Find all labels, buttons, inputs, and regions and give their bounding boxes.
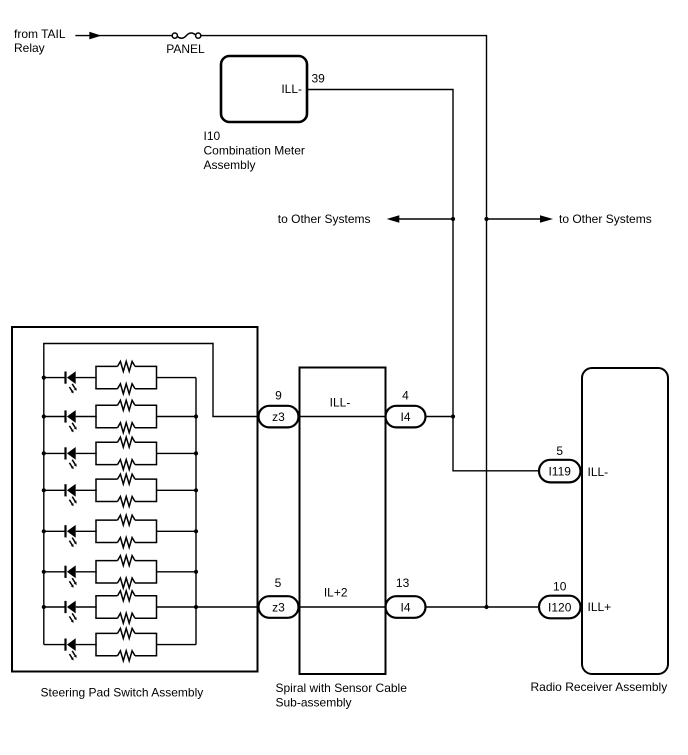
svg-text:ILL-: ILL-: [330, 395, 351, 409]
connector z3 pin 9: [259, 406, 299, 428]
svg-text:PANEL: PANEL: [166, 42, 205, 56]
svg-text:to Other Systems: to Other Systems: [559, 212, 652, 226]
wire LED to resistors row 3: [76, 452, 97, 454]
LED D6: [64, 565, 76, 587]
svg-text:5: 5: [275, 576, 282, 590]
junction on ILL+ net at to-Other-Systems: [484, 217, 488, 221]
wire left bus (LED cathode bus): [43, 344, 45, 645]
junction on ILL- net at to-Other-Systems: [451, 217, 455, 221]
wire resistors to bus row 1: [157, 377, 197, 379]
junction dot cathode bus row 2: [42, 414, 46, 418]
junction ILL+ net: [484, 605, 488, 609]
radio receiver assembly box: [582, 368, 668, 674]
resistor pair R2a / R2b: [95, 400, 157, 432]
LED D5: [64, 525, 76, 547]
svg-text:I4: I4: [400, 600, 410, 614]
svg-text:Sub-assembly: Sub-assembly: [276, 696, 352, 710]
svg-text:ILL+: ILL+: [588, 600, 612, 614]
wire resistors to bus row 6: [157, 571, 197, 573]
LED row 6: wire from cathode bus: [44, 571, 65, 573]
svg-text:z3: z3: [272, 410, 285, 424]
svg-text:10: 10: [553, 579, 567, 593]
svg-text:Spiral with Sensor Cable: Spiral with Sensor Cable: [276, 681, 408, 695]
wire resistors to bus row 7: [157, 606, 259, 608]
svg-text:9: 9: [275, 389, 282, 403]
svg-text:Steering Pad Switch Assembly: Steering Pad Switch Assembly: [41, 685, 204, 699]
svg-text:Combination Meter: Combination Meter: [204, 143, 305, 157]
svg-text:I119: I119: [548, 464, 571, 478]
LED D8: [64, 638, 76, 660]
resistor pair R3a / R3b: [95, 437, 157, 469]
LED D2: [64, 410, 76, 432]
wire meter pin 39 (ILL- net): [307, 90, 539, 471]
wire to Other Systems (left branch): [278, 212, 453, 226]
junction dot resistor bus row 2: [194, 414, 198, 418]
resistor pair R6a / R6b: [95, 556, 157, 588]
svg-text:from TAIL: from TAIL: [14, 27, 66, 41]
LED row 8: wire from cathode bus: [44, 644, 65, 646]
wire top of cathode bus: [43, 343, 213, 345]
wire to Other Systems (right branch): [487, 212, 652, 226]
resistor pair R4a / R4b: [95, 474, 157, 506]
LED D7: [64, 601, 76, 623]
svg-text:Assembly: Assembly: [204, 158, 256, 172]
svg-text:5: 5: [556, 444, 563, 458]
connector I4 pin 13: [386, 596, 426, 618]
wire ILL- inside spiral box: [299, 416, 386, 418]
junction dot cathode bus row 1: [42, 376, 46, 380]
junction dot cathode bus row 7: [42, 605, 46, 609]
junction dot cathode bus row 5: [42, 529, 46, 533]
wire resistors to bus row 2: [157, 416, 197, 418]
junction dot resistor bus row 7: [194, 605, 198, 609]
connector I120 pin 10: [539, 596, 581, 619]
connector I119 pin 5: [539, 460, 581, 483]
svg-text:IL+2: IL+2: [324, 585, 348, 599]
junction dot cathode bus row 6: [42, 570, 46, 574]
svg-text:Radio Receiver Assembly: Radio Receiver Assembly: [531, 680, 668, 694]
svg-text:Relay: Relay: [14, 41, 45, 55]
svg-text:I10: I10: [204, 129, 221, 143]
svg-text:I120: I120: [548, 600, 572, 614]
wire LED to resistors row 4: [76, 489, 97, 491]
junction dot cathode bus row 4: [42, 488, 46, 492]
svg-text:I4: I4: [400, 410, 410, 424]
wire IL+2 inside spiral box: [299, 606, 386, 608]
junction dot resistor bus row 5: [194, 529, 198, 533]
connector I4 pin 4: [386, 406, 426, 428]
resistor pair R1a / R1b: [95, 361, 157, 393]
LED row 4: wire from cathode bus: [44, 489, 65, 491]
wire LED to resistors row 5: [76, 530, 97, 532]
wire I4 pin13 to I120 (ILL+ net): [426, 606, 540, 608]
connector z3 pin 5: [259, 596, 299, 618]
junction dot resistor bus row 3: [194, 451, 198, 455]
junction dot resistor bus row 4: [194, 488, 198, 492]
wire resistors to bus row 8: [157, 644, 197, 646]
junction dot cathode bus row 3: [42, 451, 46, 455]
component label I10 Combination Meter Assembly: [204, 129, 305, 172]
resistor pair R5a / R5b: [95, 515, 157, 547]
LED row 5: wire from cathode bus: [44, 530, 65, 532]
LED row 7: wire from cathode bus: [44, 606, 65, 608]
wire resistors to bus row 4: [157, 489, 197, 491]
resistor pair R8a / R8b: [95, 628, 157, 660]
svg-text:13: 13: [396, 576, 410, 590]
LED D3: [64, 447, 76, 469]
svg-text:4: 4: [402, 389, 409, 403]
svg-text:39: 39: [312, 71, 326, 85]
fuse PANEL: [172, 33, 201, 38]
wire main feed vertical (ILL+ net): [486, 35, 488, 607]
LED D4: [64, 484, 76, 506]
svg-text:z3: z3: [272, 600, 285, 614]
wire main feed horizontal: [201, 35, 487, 37]
LED row 2: wire from cathode bus: [44, 416, 65, 418]
junction ILL- net: [451, 414, 455, 418]
wire right bus (resistor bus): [195, 378, 197, 645]
node from TAIL Relay label: [14, 27, 66, 55]
component label Spiral with Sensor Cable Sub-assembly: [276, 681, 408, 710]
wire resistors to bus row 5: [157, 530, 197, 532]
LED D1: [64, 371, 76, 393]
steering pad switch assembly box: [12, 327, 258, 672]
wire LED to resistors row 1: [76, 377, 97, 379]
wire LED to resistors row 7: [76, 606, 97, 608]
wire resistors to bus row 3: [157, 452, 197, 454]
wire from TAIL relay to fuse: [75, 32, 172, 40]
spiral with sensor cable sub-assembly box: [300, 368, 386, 675]
wire drop to z3 pin 9: [213, 343, 259, 417]
LED row 3: wire from cathode bus: [44, 452, 65, 454]
junction dot resistor bus row 6: [194, 570, 198, 574]
wire I4 pin4 to ILL- vertical: [426, 416, 454, 418]
wire LED to resistors row 6: [76, 571, 97, 573]
wire LED to resistors row 8: [76, 644, 97, 646]
svg-text:ILL-: ILL-: [281, 82, 302, 96]
svg-text:to Other Systems: to Other Systems: [278, 212, 371, 226]
wire LED to resistors row 2: [76, 416, 97, 418]
resistor pair R7a / R7b: [95, 591, 157, 623]
svg-text:ILL-: ILL-: [588, 465, 609, 479]
op-amp-like box: combination meter U I10: [221, 56, 307, 122]
LED row 1: wire from cathode bus: [44, 377, 65, 379]
